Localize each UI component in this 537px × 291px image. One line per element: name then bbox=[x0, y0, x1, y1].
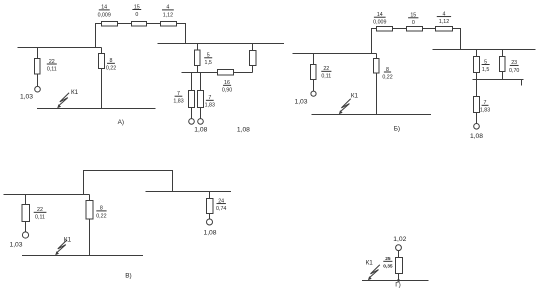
wire bottom horizontal with stub B bbox=[473, 80, 524, 86]
svg-text:0,009: 0,009 bbox=[98, 12, 111, 18]
resistor 7 (1,83) right A bbox=[198, 91, 204, 108]
wire branch 23 B bbox=[502, 50, 504, 80]
resistor 15 (0) B bbox=[407, 27, 423, 32]
resistor 5 (1,5) B bbox=[474, 57, 480, 73]
resistor 8 (0,22) V bbox=[86, 201, 93, 220]
resistor 14 (0,009) A bbox=[102, 22, 118, 27]
svg-text:Б): Б) bbox=[394, 125, 400, 132]
wire chain top B bbox=[372, 29, 461, 54]
resistor 7 (1,83) B bbox=[474, 97, 480, 113]
svg-text:К1: К1 bbox=[351, 93, 359, 100]
node junction dot G bbox=[397, 279, 400, 282]
fault bus B bbox=[312, 114, 432, 116]
wire branch 25 G bbox=[398, 251, 400, 281]
wire branch 5 B bbox=[476, 50, 478, 80]
resistor 15 (0) A bbox=[132, 22, 147, 27]
bus left A bbox=[18, 47, 102, 49]
svg-text:1,08: 1,08 bbox=[203, 229, 216, 236]
resistor 24 (0,74) V bbox=[207, 199, 214, 214]
value label V 22/0,11 bbox=[34, 207, 47, 221]
resistor 16 (0,90) horizontal A bbox=[218, 70, 234, 76]
resistor 25 (0,35) G bbox=[396, 258, 403, 274]
fault K1 lightning G bbox=[368, 265, 380, 280]
svg-text:0,22: 0,22 bbox=[106, 66, 116, 72]
source E 1,08 B bbox=[474, 124, 480, 130]
wire parallel branch 7 left A bbox=[191, 73, 193, 119]
value label A 4/1,12 bbox=[162, 5, 174, 19]
svg-text:0: 0 bbox=[135, 12, 138, 18]
resistor 4 (1,12) B bbox=[436, 27, 453, 32]
svg-text:1,83: 1,83 bbox=[205, 103, 215, 109]
value label B 15/0 bbox=[408, 13, 418, 27]
fault bus V bbox=[22, 255, 143, 257]
source E 1,03 V bbox=[22, 232, 28, 238]
wire junction horizontal A bbox=[182, 72, 253, 74]
svg-text:Г): Г) bbox=[395, 282, 401, 289]
svg-text:К1: К1 bbox=[64, 237, 72, 244]
value label B 22/0,11 bbox=[321, 66, 331, 80]
svg-text:0,90: 0,90 bbox=[222, 88, 232, 94]
svg-text:1,08: 1,08 bbox=[194, 127, 207, 134]
svg-text:К1: К1 bbox=[71, 89, 79, 96]
value label V 8/0,22 bbox=[96, 206, 106, 220]
source E 1,03 A bbox=[35, 86, 41, 92]
value label A 5/1,5 bbox=[204, 53, 212, 67]
svg-text:0: 0 bbox=[412, 20, 415, 26]
resistor 5 (1,5) A bbox=[195, 50, 201, 66]
fault K1 lightning V bbox=[55, 240, 67, 255]
resistor 4 (1,12) A bbox=[161, 22, 177, 27]
fault K1 lightning A bbox=[57, 93, 69, 108]
value label G 25/0,35 bbox=[383, 256, 393, 270]
wire shunt branch 8 V bbox=[89, 195, 91, 256]
value label A 14/0,009 bbox=[98, 5, 111, 19]
svg-text:0,009: 0,009 bbox=[373, 20, 386, 26]
wire chain top A bbox=[96, 24, 186, 48]
resistor 14 (0,009) B bbox=[377, 27, 393, 32]
svg-text:1,02: 1,02 bbox=[393, 236, 406, 243]
bus right A bbox=[158, 43, 285, 45]
source E 1,08 V bbox=[207, 219, 213, 225]
resistor 22 (0,11) B bbox=[311, 65, 317, 80]
source E 1,08 right A bbox=[198, 119, 204, 125]
bus left V bbox=[4, 194, 90, 196]
source E 1,08 left A bbox=[189, 119, 195, 125]
bus right B bbox=[433, 49, 536, 51]
source E 1,03 B bbox=[311, 91, 316, 96]
wire branch 7 B bbox=[476, 80, 478, 124]
svg-text:0,11: 0,11 bbox=[35, 215, 45, 221]
svg-text:1,03: 1,03 bbox=[294, 99, 307, 106]
value label A 16/0,90 bbox=[222, 80, 232, 94]
fault K1 lightning B bbox=[339, 99, 351, 114]
svg-text:0,74: 0,74 bbox=[216, 206, 226, 212]
svg-text:1,08: 1,08 bbox=[470, 133, 483, 140]
bus right V bbox=[146, 191, 232, 193]
resistor 8 (0,22) A bbox=[99, 54, 105, 69]
wire generator branch V bbox=[25, 195, 27, 232]
value label B 23/0,70 bbox=[509, 60, 519, 74]
svg-text:1,83: 1,83 bbox=[173, 99, 183, 105]
svg-text:А): А) bbox=[118, 119, 124, 126]
resistor unlabeled right A bbox=[250, 51, 257, 66]
svg-text:В): В) bbox=[125, 273, 131, 280]
value label A 22/0,11 bbox=[47, 59, 57, 73]
svg-text:1,12: 1,12 bbox=[163, 12, 173, 18]
svg-text:1,5: 1,5 bbox=[482, 67, 489, 73]
resistor 8 (0,22) B bbox=[374, 59, 380, 74]
value label B 14/0,009 bbox=[373, 12, 386, 26]
value label A 8/0,22 bbox=[106, 58, 116, 72]
svg-text:1,83: 1,83 bbox=[480, 108, 490, 114]
bus left B bbox=[293, 53, 377, 55]
svg-text:0,11: 0,11 bbox=[47, 66, 57, 72]
wire shunt branch 8 A bbox=[101, 48, 103, 109]
svg-text:0,11: 0,11 bbox=[321, 74, 331, 80]
fault bus G bbox=[362, 280, 429, 282]
svg-text:0,22: 0,22 bbox=[96, 213, 106, 219]
svg-text:К1: К1 bbox=[366, 260, 374, 267]
value label B 4/1,12 bbox=[437, 11, 451, 25]
wire generator branch B bbox=[313, 54, 315, 92]
svg-text:0,22: 0,22 bbox=[382, 74, 392, 80]
svg-text:0,70: 0,70 bbox=[509, 68, 519, 74]
svg-text:1,5: 1,5 bbox=[205, 60, 212, 66]
svg-text:1,12: 1,12 bbox=[439, 19, 449, 25]
value label V 24/0,74 bbox=[216, 198, 226, 212]
value label A left 7/1,83 bbox=[173, 91, 183, 105]
resistor 22 (0,11) A bbox=[35, 59, 41, 75]
value label B 7/1,83 bbox=[480, 100, 490, 114]
resistor 23 (0,70) B bbox=[500, 57, 506, 72]
fault bus A bbox=[37, 108, 156, 110]
svg-text:1,03: 1,03 bbox=[9, 242, 22, 249]
wire shunt branch 8 B bbox=[376, 54, 378, 115]
resistor 7 (1,83) left A bbox=[189, 91, 195, 108]
wire top loop V bbox=[84, 171, 173, 195]
svg-text:0,35: 0,35 bbox=[383, 264, 393, 270]
svg-text:1,08: 1,08 bbox=[237, 127, 250, 134]
source E 1,02 G bbox=[396, 245, 402, 251]
svg-text:1,03: 1,03 bbox=[20, 93, 33, 100]
resistor 22 (0,11) V bbox=[22, 205, 30, 222]
wire parallel branch 7 right A bbox=[200, 73, 202, 119]
wire branch 5 A bbox=[197, 44, 199, 73]
wire generator branch A bbox=[37, 48, 39, 87]
value label A 15/0 bbox=[132, 4, 141, 18]
value label B 8/0,22 bbox=[382, 67, 392, 81]
wire right resistor branch A bbox=[252, 44, 254, 73]
value label B 5/1,5 bbox=[482, 59, 490, 73]
value label A right 7/1,83 bbox=[205, 95, 215, 109]
wire branch 24 V bbox=[209, 192, 211, 220]
